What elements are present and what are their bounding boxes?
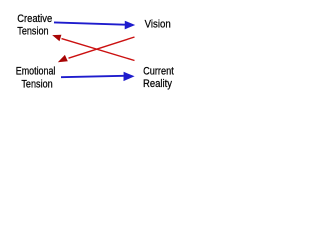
- node Creative Tension: [17, 13, 52, 38]
- arrow blue Emotional Tension to Current Reality: [61, 72, 135, 81]
- arrow red Vision to Emotional Tension: [58, 37, 135, 62]
- svg-text:Reality: Reality: [143, 78, 172, 90]
- svg-text:Creative: Creative: [17, 13, 52, 25]
- arrow blue Creative Tension to Vision: [54, 21, 135, 30]
- svg-text:Tension: Tension: [21, 78, 52, 90]
- arrow red Current Reality to Creative Tension: [52, 35, 134, 61]
- svg-text:Tension: Tension: [17, 26, 48, 38]
- svg-text:Current: Current: [143, 66, 174, 78]
- node Current Reality: [143, 66, 174, 91]
- node Emotional Tension: [16, 66, 56, 91]
- svg-text:Vision: Vision: [145, 18, 171, 30]
- svg-text:Emotional: Emotional: [16, 66, 56, 78]
- node Vision: [145, 18, 171, 30]
